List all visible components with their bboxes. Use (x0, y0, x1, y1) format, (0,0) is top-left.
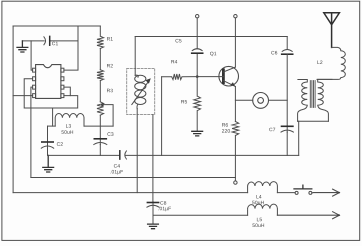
capacitor C1 (44, 37, 46, 45)
capacitor C7 (variable) (286, 126, 288, 132)
resistor R4 (162, 74, 198, 80)
wire pin2 box to pin5 (24, 79, 77, 108)
U1 pin 7 (61, 77, 64, 81)
wire L4 to switch (277, 192, 295, 194)
U1 pin 6 (61, 85, 64, 89)
node R3 tap dot (101, 103, 104, 106)
wire Q1 emitter down (234, 87, 236, 122)
op-amp U1 body (36, 65, 61, 99)
wire transformer bottom bar (298, 120, 329, 122)
dashed tuning box (127, 68, 155, 114)
wire R6 to node (234, 155, 236, 181)
wire R4 drop (161, 77, 163, 156)
wire C7 to rail (286, 132, 288, 155)
wire R1-R2 (99, 49, 101, 70)
inductor L2 (317, 47, 345, 79)
wire to jack (235, 99, 287, 101)
U1 pin 1 (33, 68, 36, 72)
transistor Q1 (219, 66, 239, 86)
node open terminal (234, 181, 237, 184)
U1 pin 2 (33, 77, 36, 81)
inductor L4 (248, 182, 278, 193)
inductor L3 (55, 114, 84, 127)
wire L3 right to tap (84, 125, 113, 127)
wire top rail (135, 36, 287, 38)
transformer T1 right winding (318, 79, 332, 121)
wire pin8 riser x78 (64, 26, 78, 70)
terminal T1 (196, 15, 199, 18)
wire bottom rail left segment (48, 154, 120, 156)
node base junction dot (196, 75, 199, 78)
wire pin1 riser (31, 41, 32, 70)
wire R3 to C3 (99, 115, 101, 138)
transformer T1 core (310, 81, 315, 108)
resistor R3 (97, 102, 104, 115)
ground G4 (148, 224, 159, 229)
resistor R6 (232, 122, 239, 156)
resistor R5 (194, 77, 201, 131)
wire C3 to rail (99, 145, 101, 156)
wire C8 down (152, 207, 154, 223)
wire bottom rail right segment (125, 154, 299, 156)
capacitor C6 (286, 37, 288, 50)
wire R3 tap loop (103, 105, 114, 127)
U1 pin 4 (33, 94, 36, 98)
wire top-left loop horizontal (13, 25, 100, 27)
ground G3 (192, 131, 203, 136)
wire transformer drop to rail (298, 121, 300, 155)
wire Q1 base (197, 76, 223, 78)
capacitor C4 (119, 151, 121, 159)
wire Q1 collector up (234, 37, 236, 68)
ground G2 (43, 155, 54, 172)
terminal T2 (234, 15, 237, 18)
wire C2 to rail (47, 148, 49, 155)
wire pin3 to inner drop (31, 87, 33, 177)
wire output arrow top (312, 189, 339, 196)
wire C6 to C7 (286, 54, 288, 126)
U1 pin 5 (61, 94, 64, 98)
capacitor C2 (variable) (47, 126, 49, 148)
wire pin6 loop to pin5 (64, 87, 70, 96)
wire rail2 (13, 192, 248, 194)
wire C1 net (22, 40, 78, 42)
wire left vertical rail (12, 26, 14, 193)
wire R2-R3 (99, 81, 101, 102)
jack J1 (253, 93, 269, 109)
wire rail1 (31, 177, 236, 179)
capacitor C3 (variable) (99, 138, 101, 144)
switch SW1 (295, 191, 298, 194)
wire L3 left jog (48, 125, 56, 127)
transformer T1 left winding (298, 80, 308, 122)
capacitor C5 (196, 37, 198, 77)
resistor R2 (97, 70, 104, 81)
U1 pin 8 (61, 68, 64, 72)
capacitor C8 (152, 202, 154, 208)
wire rail3 (153, 214, 248, 216)
inductor L5 (248, 204, 278, 215)
wire L1 to rail2 (136, 109, 138, 193)
wire tap drop to C8 (152, 115, 154, 203)
wire drop to L3 (52, 108, 54, 126)
U1 pin 3 (33, 85, 36, 89)
variable inductor L1 (135, 75, 138, 77)
wire pin4 from left rail (13, 95, 32, 97)
wire output arrow bottom (277, 212, 339, 219)
wire top rail feed corner (134, 37, 136, 76)
ground G1 (17, 41, 28, 52)
resistor R1 (97, 26, 104, 49)
antenna ANT1 (324, 13, 340, 48)
